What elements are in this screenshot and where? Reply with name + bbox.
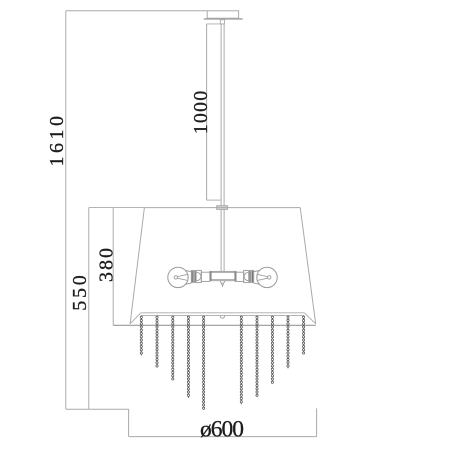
socket right cup	[244, 272, 248, 280]
dim 550 line	[88, 208, 90, 410]
shade right side	[300, 208, 316, 324]
chain 5	[203, 316, 205, 410]
extension line shade top	[89, 207, 145, 209]
dim 600 left riser	[128, 409, 130, 436]
chain 4	[187, 316, 189, 398]
chain 8	[271, 316, 273, 384]
socket right arm	[235, 272, 244, 281]
chain 1	[140, 316, 142, 356]
ceiling line	[66, 10, 207, 12]
socket left cup	[197, 272, 201, 280]
dim 1610 line	[65, 11, 67, 409]
dim 1000 line	[206, 24, 208, 200]
svg-text:550: 550	[69, 275, 91, 311]
bulb right globe	[254, 267, 277, 287]
dim 600 right riser	[316, 408, 318, 436]
bulb left screw base	[192, 271, 196, 282]
bottom connector line	[66, 408, 129, 410]
canopy neck	[220, 20, 224, 24]
dim 600 line	[129, 436, 317, 438]
block hook	[220, 281, 224, 287]
rim top edges	[141, 313, 304, 316]
chain 3	[172, 316, 174, 380]
chain 2	[156, 316, 158, 368]
chain 10	[303, 316, 305, 355]
rim right bevel	[304, 313, 315, 324]
rod	[221, 24, 224, 206]
rim bottom edge with 380 extension	[113, 324, 316, 326]
dim 380 line	[112, 208, 114, 326]
chain 6	[240, 316, 242, 405]
shade left side	[130, 208, 144, 324]
center block	[210, 271, 236, 280]
bulb right filament	[257, 274, 271, 280]
shade top edge	[144, 207, 300, 209]
canopy box	[207, 11, 238, 18]
svg-text:ø600: ø600	[200, 416, 244, 442]
rim left bevel	[130, 313, 141, 324]
dim 1000 bottom tick	[207, 199, 222, 201]
canopy plate	[204, 18, 243, 20]
bulb left filament	[174, 274, 188, 280]
rim center hook	[220, 316, 224, 319]
rod hub collar	[217, 206, 228, 210]
socket left arm	[201, 272, 210, 281]
bulb right screw base	[249, 271, 253, 282]
dim 1000 top tick	[207, 23, 225, 25]
rod lower segment	[221, 209, 224, 271]
bulb left globe	[168, 267, 192, 287]
socket right holder	[244, 270, 254, 282]
svg-text:380: 380	[95, 248, 117, 282]
socket left holder	[191, 270, 201, 282]
svg-text:1000: 1000	[190, 91, 212, 135]
chain 7	[256, 316, 258, 397]
chain 9	[287, 316, 289, 369]
